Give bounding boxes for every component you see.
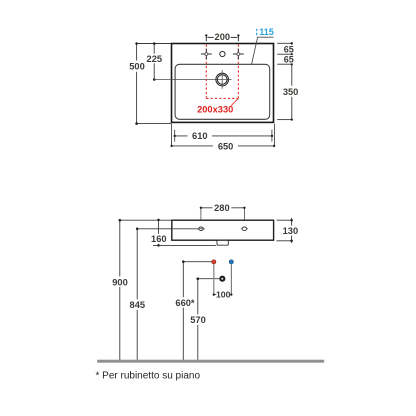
svg-text:225: 225 [147, 54, 163, 64]
svg-text:200x330: 200x330 [197, 105, 233, 115]
svg-text:200: 200 [215, 32, 231, 42]
svg-text:570: 570 [190, 315, 206, 325]
svg-text:610: 610 [192, 131, 208, 141]
svg-text:100: 100 [216, 289, 231, 299]
svg-text:65: 65 [284, 44, 294, 54]
svg-text:845: 845 [130, 300, 146, 310]
svg-text:65: 65 [284, 55, 294, 65]
svg-text:160: 160 [151, 234, 167, 244]
svg-text:130: 130 [283, 226, 299, 236]
svg-text:660*: 660* [175, 298, 195, 308]
svg-text:115: 115 [259, 27, 274, 37]
svg-text:500: 500 [129, 61, 145, 71]
svg-text:350: 350 [283, 87, 299, 97]
svg-text:280: 280 [214, 203, 230, 213]
svg-text:900: 900 [112, 277, 128, 287]
svg-text:* Per rubinetto su piano: * Per rubinetto su piano [96, 370, 201, 381]
svg-text:650: 650 [218, 141, 234, 151]
